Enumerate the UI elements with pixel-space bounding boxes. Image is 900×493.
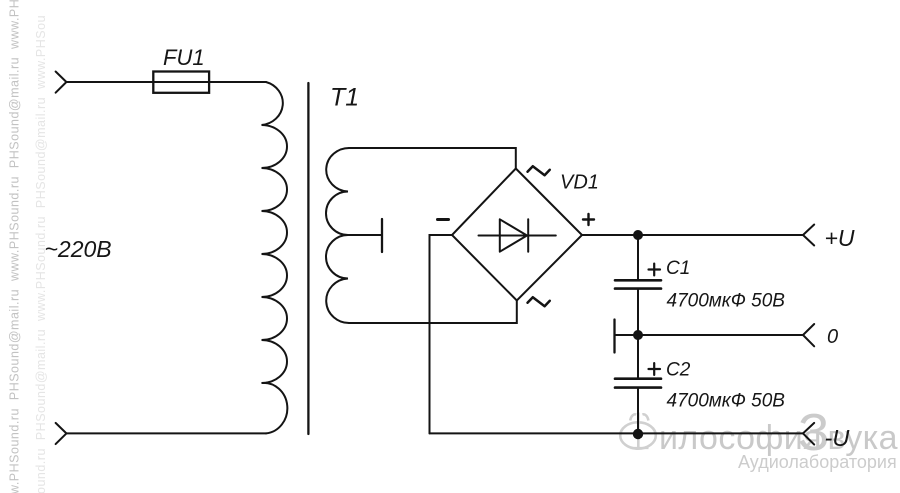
wire bottom input to primary — [66, 432, 266, 434]
wire +U rail — [582, 234, 803, 236]
svg-text:C2: C2 — [666, 360, 691, 381]
label VD1 — [560, 172, 599, 194]
center tap terminal — [348, 219, 382, 252]
wire secondary bottom to bridge — [349, 301, 517, 324]
capacitor C1 — [615, 235, 661, 335]
watermark text илософия — [659, 419, 822, 457]
label C2 value — [667, 391, 786, 412]
wire secondary top to bridge — [349, 148, 516, 169]
svg-text:Аудиолаборатория: Аудиолаборатория — [738, 452, 897, 472]
0 rail connector bar — [615, 320, 639, 353]
svg-text:VD1: VD1 — [560, 172, 599, 194]
label plus C2 — [649, 363, 661, 375]
terminal 0 — [803, 324, 814, 346]
fuse FU1 — [153, 72, 209, 93]
label plus C1 — [649, 264, 661, 276]
terminal input top — [56, 72, 67, 93]
svg-text:4700мкФ 50В: 4700мкФ 50В — [667, 391, 786, 412]
wire 0 rail — [638, 334, 803, 336]
capacitor C2 — [615, 335, 661, 433]
watermark column left inner — [8, 0, 22, 493]
node junction 0 — [633, 330, 643, 340]
label ~ bottom of bridge — [528, 297, 550, 306]
label FU1 — [163, 45, 205, 70]
label minus at bridge — [438, 218, 449, 221]
transformer T1 secondary winding — [326, 148, 351, 323]
svg-text:T1: T1 — [330, 84, 359, 112]
wire bridge minus to bottom rail — [430, 235, 453, 433]
label T1 — [330, 84, 359, 112]
bridge rectifier VD1 — [452, 169, 582, 301]
node junction -U — [633, 429, 643, 439]
svg-text:w.PHSound.ru PHSound@mail.ru: w.PHSound.ru PHSound@mail.ru www.PHSound… — [8, 0, 22, 493]
label C1 value — [667, 291, 786, 312]
transformer T1 primary winding — [262, 82, 288, 433]
svg-text:C1: C1 — [666, 258, 690, 279]
svg-text:0: 0 — [827, 326, 838, 348]
label 0 — [827, 326, 838, 348]
svg-text:FU1: FU1 — [163, 45, 205, 70]
terminal -U — [803, 423, 814, 445]
label ~ top of bridge — [528, 166, 550, 175]
svg-text:-U: -U — [825, 425, 851, 451]
svg-text:~220В: ~220В — [45, 236, 112, 262]
watermark emblem Ф — [620, 413, 656, 449]
node junction +U — [633, 230, 643, 240]
transformer core — [307, 83, 309, 434]
label C2 — [666, 360, 691, 381]
label ~220В — [45, 236, 112, 262]
watermark column left outer — [34, 15, 48, 493]
wire -U rail — [430, 432, 803, 434]
terminal +U — [803, 225, 814, 246]
wire top input to primary — [66, 81, 266, 83]
terminal input bottom — [56, 423, 67, 444]
watermark text Звука — [798, 404, 898, 462]
label -U — [825, 425, 851, 451]
diode inside bridge — [479, 219, 556, 251]
label plus at bridge — [583, 214, 594, 225]
svg-text:4700мкФ 50В: 4700мкФ 50В — [667, 291, 786, 312]
watermark text Аудиолаборатория — [738, 452, 897, 472]
svg-text:+U: +U — [825, 225, 855, 251]
label +U — [825, 225, 855, 251]
label C1 — [666, 258, 690, 279]
